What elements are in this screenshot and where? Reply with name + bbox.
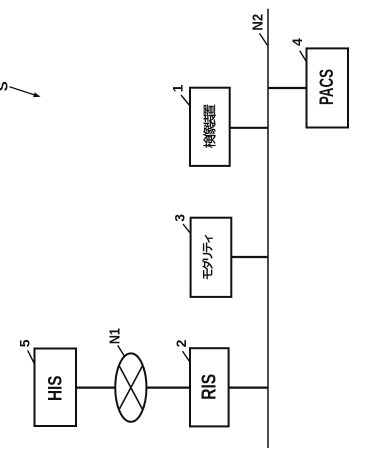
svg-text:N2: N2 (250, 14, 267, 31)
svg-text:1: 1 (169, 84, 185, 92)
leader 1 (181, 95, 190, 106)
wire HIS to N1 (76, 387, 116, 389)
label kenzo-souchi (image check device) (203, 104, 216, 148)
wire kenzo device to bus (230, 127, 268, 129)
block HIS (5) (35, 349, 77, 427)
svg-text:3: 3 (172, 214, 188, 222)
svg-text:RIS: RIS (199, 374, 221, 400)
svg-text:4: 4 (289, 38, 305, 46)
leader 5 (28, 350, 35, 364)
svg-text:PACS: PACS (316, 69, 338, 105)
arrow from S into figure (10, 87, 40, 97)
svg-text:HIS: HIS (45, 375, 66, 401)
block PACS (4) (307, 48, 349, 127)
wire bus to PACS (268, 87, 307, 89)
block RIS (2) (190, 348, 229, 426)
wire N1 to RIS (146, 387, 190, 389)
leader 2 (183, 351, 190, 362)
svg-text:2: 2 (173, 339, 189, 347)
wire RIS to bus (229, 387, 268, 389)
svg-text:5: 5 (16, 339, 32, 347)
leader 4 (300, 51, 307, 62)
block modality (3) (191, 218, 232, 297)
leader N2 (260, 33, 268, 45)
node N1 network symbol (115, 353, 146, 421)
leader 3 (183, 224, 191, 234)
wire network bus N2 (267, 9, 269, 448)
leader N1 (118, 345, 125, 356)
block image-check device (1) (190, 88, 230, 166)
svg-text:N1: N1 (106, 328, 123, 344)
wire modality to bus (231, 256, 268, 258)
label modality (katakana) (202, 235, 213, 279)
